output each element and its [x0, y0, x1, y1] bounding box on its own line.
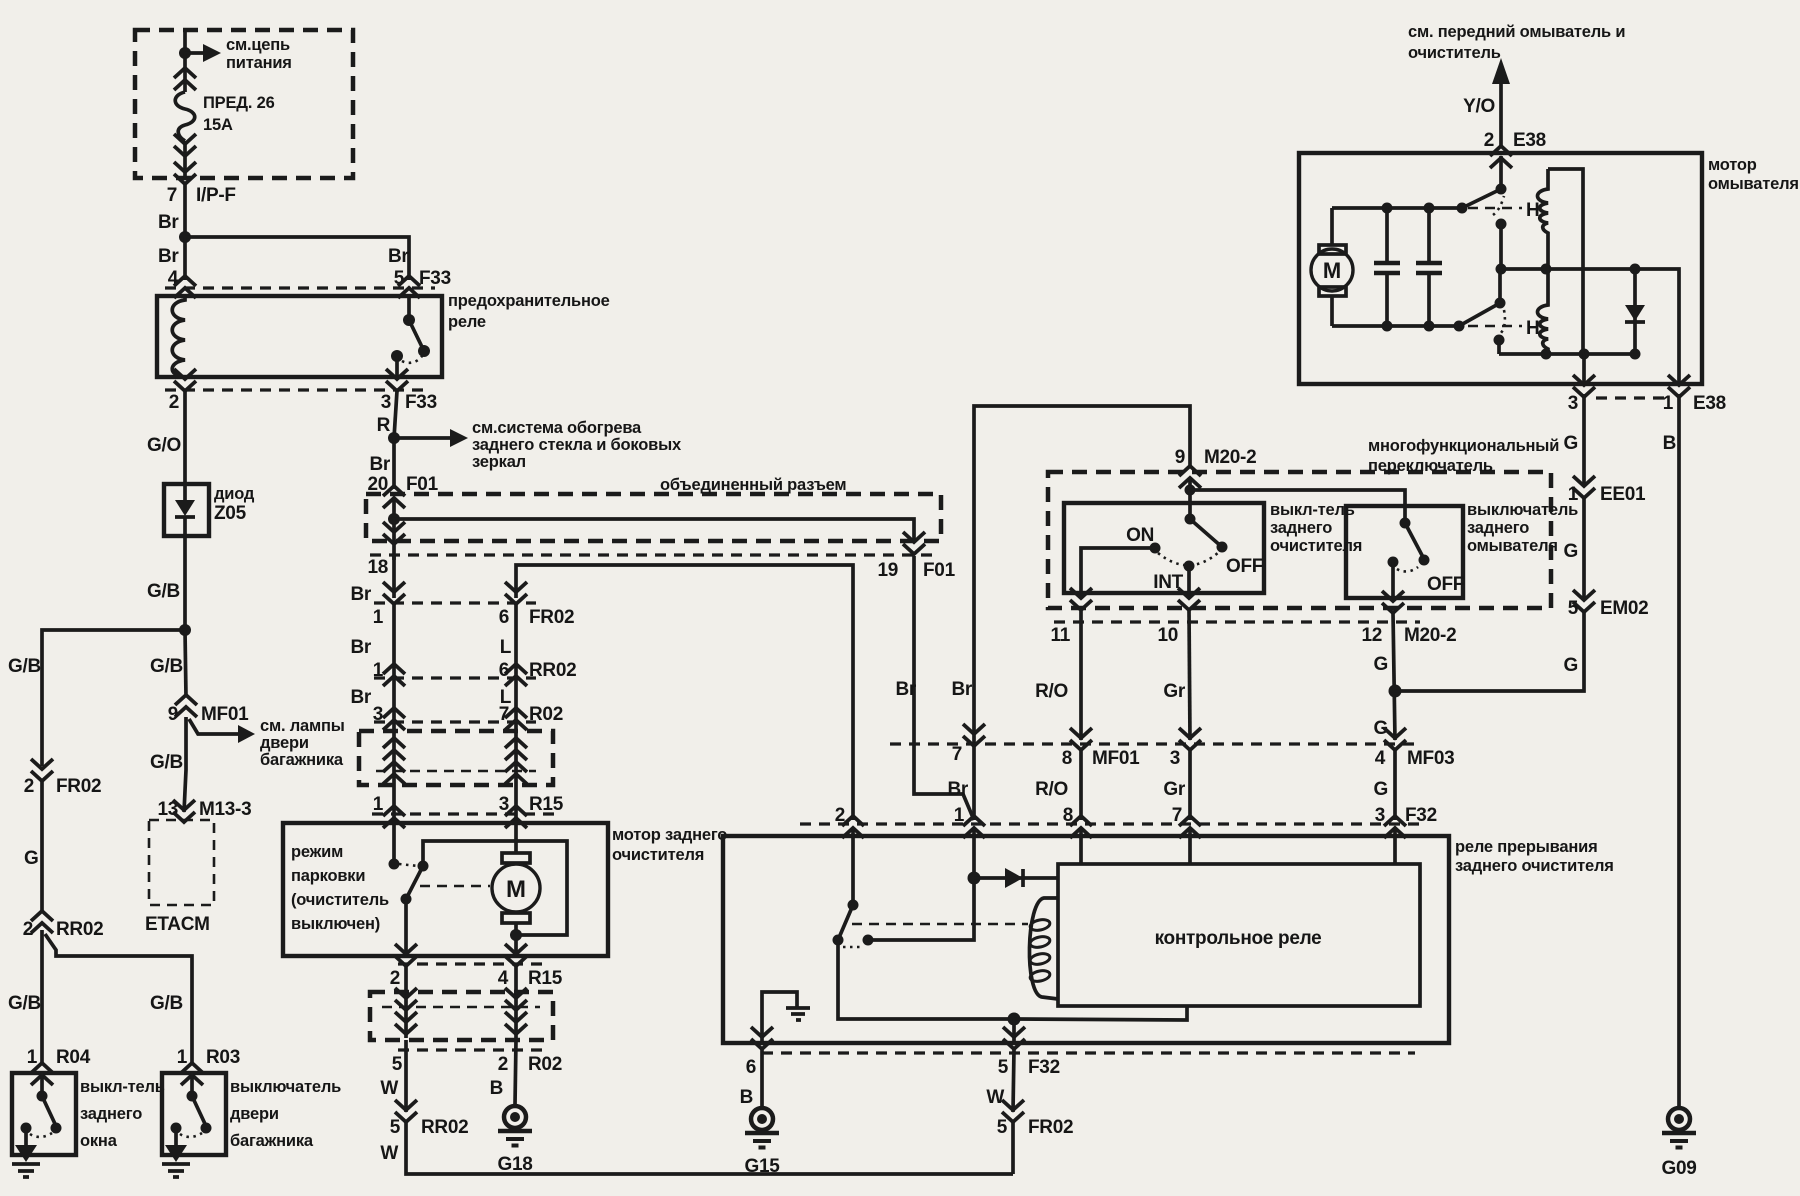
bottom switch alternate contact	[1494, 335, 1505, 346]
svg-text:L: L	[500, 637, 512, 658]
connector row R15	[372, 812, 556, 815]
svg-text:6: 6	[499, 607, 509, 628]
connector MF03 pin 4	[1384, 728, 1406, 750]
svg-text:зеркал: зеркал	[472, 453, 526, 471]
svg-text:G/B: G/B	[8, 656, 41, 677]
wire INT to pin 10	[1187, 566, 1191, 596]
svg-text:10: 10	[1157, 625, 1178, 646]
chevrons lower right pair1	[505, 988, 527, 1010]
svg-text:4: 4	[1375, 748, 1386, 769]
node output	[1008, 1013, 1021, 1026]
row inside lower box	[382, 1006, 540, 1009]
svg-text:реле: реле	[448, 313, 486, 331]
parking switch contact	[392, 823, 396, 864]
wire contact to diode node	[868, 878, 974, 940]
connector F32 pin 1	[963, 816, 985, 838]
svg-text:G/B: G/B	[147, 581, 180, 602]
node diode junction	[968, 872, 981, 885]
connector F33 pin 3	[386, 369, 408, 391]
connector MF01 pin 9	[175, 695, 197, 717]
svg-text:5: 5	[392, 1054, 403, 1075]
svg-text:G/B: G/B	[150, 993, 183, 1014]
connector F32 pin 5	[1003, 1027, 1025, 1049]
svg-text:B: B	[490, 1078, 503, 1099]
svg-text:выкл-тель: выкл-тель	[1270, 501, 1355, 519]
connector RR02 pin 1	[383, 664, 405, 686]
svg-text:1: 1	[373, 660, 384, 681]
chevrons left pair1	[383, 738, 405, 760]
svg-text:заднего очистителя: заднего очистителя	[1455, 857, 1614, 875]
svg-text:5: 5	[1568, 598, 1579, 619]
svg-text:H: H	[1526, 200, 1539, 221]
wire below fuse	[183, 141, 187, 178]
wire G	[40, 780, 44, 913]
svg-text:питания: питания	[226, 54, 292, 72]
connector M20-2 pin 11	[1070, 588, 1092, 610]
wire FR02 down to bottom bus	[1011, 1122, 1015, 1174]
svg-text:F32: F32	[1405, 805, 1437, 826]
parking switch pivot	[418, 861, 429, 872]
svg-text:1: 1	[373, 794, 384, 815]
svg-text:мотор: мотор	[1708, 156, 1757, 174]
connector EE01 pin 1	[1573, 476, 1595, 498]
wire B to G18	[515, 1040, 516, 1105]
capacitor C1	[1385, 208, 1389, 262]
svg-text:R02: R02	[528, 1054, 562, 1075]
chevrons right pair1	[505, 738, 527, 760]
annotation arrow: см. лампы двери багажника	[189, 719, 238, 734]
svg-text:11: 11	[1051, 625, 1071, 646]
wire joint to F01 pin 19	[394, 519, 914, 542]
svg-text:предохранительное: предохранительное	[448, 292, 610, 310]
svg-text:FR02: FR02	[1028, 1117, 1073, 1138]
wire feed to washer switch	[1190, 490, 1405, 523]
wire G from pin 12	[1393, 613, 1395, 740]
wire G/B down	[185, 630, 186, 697]
svg-text:переключатель: переключатель	[1368, 457, 1493, 475]
wiper switch blade to OFF	[1190, 519, 1222, 547]
wire Br down from pin 18	[392, 556, 396, 598]
wire L FR02-RR02	[514, 604, 518, 676]
svg-text:Br: Br	[388, 246, 409, 267]
chevrons lower left pair1	[395, 988, 417, 1010]
svg-text:см.система обогрева: см.система обогрева	[472, 419, 642, 437]
connector RR02 pin 5	[395, 1100, 417, 1122]
wire G/B to R04	[40, 930, 44, 1064]
svg-text:M20-2: M20-2	[1204, 447, 1256, 468]
top switch blade	[1462, 189, 1501, 208]
svg-text:1: 1	[177, 1047, 188, 1068]
svg-text:9: 9	[1175, 447, 1185, 468]
svg-text:заднего: заднего	[1467, 519, 1529, 537]
svg-text:Br: Br	[895, 679, 916, 700]
svg-text:3: 3	[1568, 393, 1578, 414]
mechanical link dashed	[852, 923, 1028, 926]
svg-text:F33: F33	[405, 392, 437, 413]
connector MF01 pin 8	[1070, 728, 1092, 750]
svg-text:5: 5	[390, 1117, 401, 1138]
svg-text:1: 1	[1663, 393, 1674, 414]
wire Br from M20-2 pin 9	[974, 406, 1190, 820]
svg-text:1: 1	[27, 1047, 38, 1068]
wire through box right	[514, 722, 518, 823]
connector R15 pin 1	[383, 806, 405, 828]
dashed link to heater H top	[1468, 207, 1522, 210]
svg-text:FR02: FR02	[56, 776, 101, 797]
svg-text:парковки: парковки	[291, 867, 365, 885]
svg-text:W: W	[380, 1143, 398, 1164]
svg-text:G/O: G/O	[147, 435, 181, 456]
svg-text:E38: E38	[1693, 393, 1726, 414]
svg-text:окна: окна	[80, 1132, 118, 1150]
svg-text:1: 1	[373, 607, 384, 628]
wire Gr	[1189, 610, 1190, 740]
wire L loop from FR02 to relay	[516, 565, 853, 820]
connector row RR02	[374, 676, 536, 679]
svg-text:R04: R04	[56, 1047, 91, 1068]
wire branch to R03	[45, 934, 192, 1064]
wire B to G15	[760, 1049, 764, 1106]
svg-text:1: 1	[954, 805, 965, 826]
svg-text:заднего: заднего	[1270, 519, 1332, 537]
svg-text:2: 2	[24, 776, 34, 797]
parking switch blade	[406, 866, 423, 899]
connector row R02	[374, 720, 536, 723]
connector chevrons above fuse	[174, 68, 196, 90]
washer switch pivot	[1400, 518, 1411, 529]
node power tap	[179, 47, 191, 59]
wire W down	[404, 1040, 408, 1112]
connector I/P-F pin 7	[174, 162, 196, 184]
top switch alternate contact	[1496, 219, 1507, 230]
field coil bottom	[1538, 269, 1549, 354]
wire pin2 into box	[1499, 156, 1503, 189]
wire B to G09	[1677, 394, 1681, 1106]
connector row F33 top	[165, 286, 435, 289]
ground G09	[1662, 1108, 1696, 1148]
svg-text:3: 3	[1375, 805, 1385, 826]
svg-text:E38: E38	[1513, 130, 1546, 151]
svg-text:8: 8	[1063, 805, 1073, 826]
rear wiper motor box	[283, 823, 608, 956]
svg-text:G: G	[1374, 654, 1388, 675]
connector E38 pin 3	[1582, 354, 1586, 384]
safety relay box	[157, 296, 442, 377]
connector FR02 pin 6	[505, 582, 527, 604]
svg-text:(очиститель: (очиститель	[291, 891, 389, 909]
diode D2	[974, 876, 1058, 880]
svg-text:багажника: багажника	[230, 1132, 314, 1150]
svg-text:G: G	[1564, 541, 1578, 562]
svg-text:G/B: G/B	[8, 993, 41, 1014]
bottom bus wire	[1332, 324, 1459, 328]
R03 switch	[190, 1073, 194, 1096]
connector R02 pin 3	[383, 708, 405, 730]
connector R15 pin 3	[505, 806, 527, 828]
svg-text:R03: R03	[206, 1047, 240, 1068]
node joint split	[388, 513, 400, 525]
svg-text:Br: Br	[350, 637, 371, 658]
relay switch blade	[838, 905, 853, 940]
svg-text:FR02: FR02	[529, 607, 574, 628]
svg-text:1: 1	[1568, 484, 1579, 505]
svg-text:RR02: RR02	[529, 660, 576, 681]
wire pin7 entry	[1188, 828, 1192, 864]
svg-text:G: G	[1374, 779, 1388, 800]
svg-text:9: 9	[168, 704, 178, 725]
connector chevrons below fuse	[174, 134, 196, 156]
diode Z05 box	[164, 484, 209, 536]
svg-text:3: 3	[373, 704, 383, 725]
svg-text:R/O: R/O	[1035, 681, 1068, 702]
svg-text:2: 2	[390, 968, 400, 989]
inner loop wire	[423, 841, 567, 935]
node Br junction	[179, 231, 191, 243]
wire Br FR02-RR02	[392, 604, 396, 676]
wire relay contact to pin 3	[395, 356, 399, 377]
svg-text:очистителя: очистителя	[1270, 537, 1362, 555]
svg-text:Br: Br	[158, 246, 179, 267]
svg-text:7: 7	[167, 185, 177, 206]
svg-text:R/O: R/O	[1035, 779, 1068, 800]
svg-text:ON: ON	[1126, 525, 1154, 546]
top switch pivot	[1496, 184, 1507, 195]
relay coil	[172, 296, 185, 377]
svg-text:мотор заднего: мотор заднего	[612, 826, 727, 844]
connector row M20-2	[1054, 620, 1420, 623]
svg-text:двери: двери	[230, 1105, 279, 1123]
svg-text:2: 2	[835, 805, 845, 826]
svg-text:G09: G09	[1661, 1158, 1696, 1179]
svg-text:F01: F01	[923, 560, 956, 581]
svg-text:3: 3	[499, 794, 509, 815]
wire from box top to power tap	[183, 30, 187, 53]
svg-text:7: 7	[1172, 805, 1182, 826]
wire pin1 entry	[972, 828, 976, 878]
node G junction	[1389, 685, 1402, 698]
svg-text:G/B: G/B	[150, 656, 183, 677]
svg-text:3: 3	[381, 392, 391, 413]
svg-text:выкл-тель: выкл-тель	[80, 1078, 165, 1096]
R03 ground	[174, 1128, 178, 1145]
wire W bottom	[406, 1122, 1013, 1174]
svg-text:Br: Br	[947, 779, 968, 800]
intermittent relay box	[723, 836, 1449, 1043]
wire pin2 down	[404, 966, 408, 1038]
svg-text:см. лампы: см. лампы	[260, 717, 345, 735]
connector F33 pin 2	[174, 369, 196, 391]
svg-text:Br: Br	[350, 687, 371, 708]
relay switch contact	[391, 350, 403, 362]
dashed link to heater H bottom	[1468, 325, 1522, 328]
svg-text:G18: G18	[497, 1154, 532, 1175]
wire joint down	[392, 519, 396, 560]
svg-text:см.цепь: см.цепь	[226, 36, 290, 54]
svg-text:7: 7	[952, 744, 962, 765]
svg-text:F32: F32	[1028, 1057, 1060, 1078]
svg-text:G: G	[24, 848, 38, 869]
svg-text:2: 2	[498, 1054, 508, 1075]
svg-text:реле прерывания: реле прерывания	[1455, 838, 1598, 856]
wire through box left	[392, 722, 396, 823]
svg-text:B: B	[1663, 433, 1676, 454]
annotation arrow: см.цепь питания	[185, 51, 203, 55]
internal ground wire pin 6	[762, 992, 797, 1043]
connector row FR02	[374, 601, 536, 604]
chevrons lower right pair2	[505, 1012, 527, 1034]
svg-text:3: 3	[1170, 748, 1180, 769]
connector row E38 bottom	[1596, 396, 1668, 399]
wire pin8 entry	[1079, 828, 1083, 864]
top bus wire	[1332, 206, 1462, 210]
svg-text:выключатель: выключатель	[230, 1078, 341, 1096]
relay coil	[1029, 898, 1058, 999]
ground G15	[745, 1108, 779, 1148]
svg-text:двери: двери	[260, 734, 309, 752]
wire R/O	[1079, 610, 1083, 740]
svg-text:ETACM: ETACM	[145, 914, 210, 935]
connector row F33 bottom	[165, 388, 430, 391]
connector E38 pin 1	[1668, 375, 1690, 397]
wire pin2 entry	[851, 828, 855, 905]
wire G to MF03 node	[1395, 612, 1584, 691]
svg-text:ПРЕД. 26: ПРЕД. 26	[203, 94, 275, 112]
relay switch contact	[863, 935, 874, 946]
svg-text:заднего: заднего	[80, 1105, 142, 1123]
svg-text:G15: G15	[744, 1156, 780, 1177]
svg-text:Gr: Gr	[1163, 681, 1185, 702]
chevrons lower left pair2	[395, 1012, 417, 1034]
svg-text:выключатель: выключатель	[1467, 501, 1578, 519]
svg-text:MF01: MF01	[1092, 748, 1140, 769]
svg-text:очистителя: очистителя	[612, 846, 704, 864]
svg-text:B: B	[740, 1087, 753, 1108]
wiper motor M	[514, 823, 518, 853]
joint connector dashed box	[366, 494, 941, 541]
connector row MF01/MF03	[890, 742, 1420, 745]
wire R/O lower	[1079, 750, 1083, 820]
svg-text:8: 8	[1062, 748, 1072, 769]
svg-text:багажника: багажника	[260, 751, 344, 769]
svg-text:диод: диод	[214, 485, 255, 503]
svg-text:4: 4	[168, 268, 179, 289]
wire G/B to left branch	[42, 630, 185, 766]
svg-text:M20-2: M20-2	[1404, 625, 1456, 646]
relay switch pivot	[403, 314, 415, 326]
svg-text:H: H	[1526, 318, 1539, 339]
wire output node to control relay bottom pin	[1014, 1006, 1187, 1020]
svg-text:Br: Br	[158, 212, 179, 233]
armature winding loop	[1548, 169, 1583, 354]
svg-text:6: 6	[746, 1057, 756, 1078]
svg-text:M13-3: M13-3	[199, 799, 251, 820]
svg-text:R15: R15	[529, 794, 564, 815]
connector F32 pin 8	[1070, 816, 1092, 838]
wire G/B	[183, 536, 187, 630]
svg-text:Br: Br	[350, 584, 371, 605]
rear window switch R04 box	[12, 1073, 76, 1155]
wire pin3 entry	[1393, 828, 1397, 864]
internal ground	[786, 1008, 810, 1020]
bottom switch blade	[1459, 303, 1500, 326]
wire Gr lower	[1188, 750, 1192, 820]
wire G	[1582, 498, 1586, 600]
svg-text:Z05: Z05	[214, 503, 247, 524]
svg-text:EE01: EE01	[1600, 484, 1646, 505]
wire node to pin5 exit	[1012, 1019, 1016, 1043]
field coil top	[1538, 169, 1549, 269]
connector R02 pin 7	[505, 708, 527, 730]
washer motor box	[1299, 153, 1702, 384]
connector M20-2 pin 12	[1382, 591, 1404, 613]
svg-text:R: R	[377, 415, 391, 436]
wire G lower	[1393, 750, 1397, 820]
svg-text:Gr: Gr	[1163, 779, 1185, 800]
ETACM dashed box	[149, 820, 214, 905]
svg-text:M: M	[506, 876, 526, 903]
diode Z05	[183, 484, 187, 500]
connector R15 pin 4	[505, 944, 527, 966]
fuse block dashed box	[135, 30, 353, 178]
svg-text:W: W	[380, 1078, 398, 1099]
svg-text:G/B: G/B	[150, 752, 183, 773]
connector FR02 pin 1	[383, 582, 405, 604]
node M20-2 feed	[1188, 478, 1192, 519]
wire R from F33 pin 3	[394, 391, 397, 438]
connector R15 pin 2	[395, 944, 417, 966]
wire blade to output node	[838, 940, 1014, 1019]
svg-text:заднего стекла и боковых: заднего стекла и боковых	[472, 436, 682, 454]
svg-text:RR02: RR02	[421, 1117, 468, 1138]
svg-text:12: 12	[1361, 625, 1382, 646]
connector row F32 bottom	[762, 1051, 1415, 1054]
svg-text:омывателя: омывателя	[1467, 537, 1558, 555]
bottom switch pivot	[1498, 269, 1502, 303]
node R tap	[388, 432, 400, 444]
wire Br RR02-R02	[392, 676, 396, 722]
svg-text:15А: 15А	[203, 116, 233, 134]
connector F32 pin 3	[1384, 816, 1406, 838]
node G/B split	[179, 624, 191, 636]
svg-text:выключен): выключен)	[291, 915, 380, 933]
connector F01 pin 19	[903, 532, 925, 554]
connector EM02 pin 5	[1573, 590, 1595, 612]
relay switch blade	[409, 320, 424, 351]
connector RR02 pin 6	[505, 664, 527, 686]
ground G18	[498, 1106, 532, 1146]
svg-text:EM02: EM02	[1600, 598, 1648, 619]
node motor bottom	[510, 929, 522, 941]
chevrons right pair2	[505, 762, 527, 784]
wire Br to F33 pin 5	[185, 237, 409, 280]
svg-text:объединенный разъем: объединенный разъем	[660, 476, 846, 494]
connector F32 pin 7	[1179, 816, 1201, 838]
wire pin4 down	[514, 966, 518, 1038]
svg-text:многофункциональный: многофункциональный	[1368, 437, 1559, 455]
svg-text:5: 5	[997, 1117, 1008, 1138]
tailgate switch R03 box	[162, 1073, 226, 1155]
wire inside joint connector	[392, 498, 396, 519]
fuse ПРЕД 26 15A	[175, 92, 195, 141]
connector chevrons pin 18	[383, 522, 405, 544]
connector MF01 pin 7	[963, 724, 985, 746]
connector RR02 pin 2	[31, 911, 53, 933]
R04 ground	[24, 1128, 28, 1145]
svg-text:5: 5	[998, 1057, 1009, 1078]
svg-text:OFF: OFF	[1427, 574, 1464, 595]
washer pump motor M	[1330, 208, 1334, 245]
svg-text:MF01: MF01	[201, 704, 249, 725]
